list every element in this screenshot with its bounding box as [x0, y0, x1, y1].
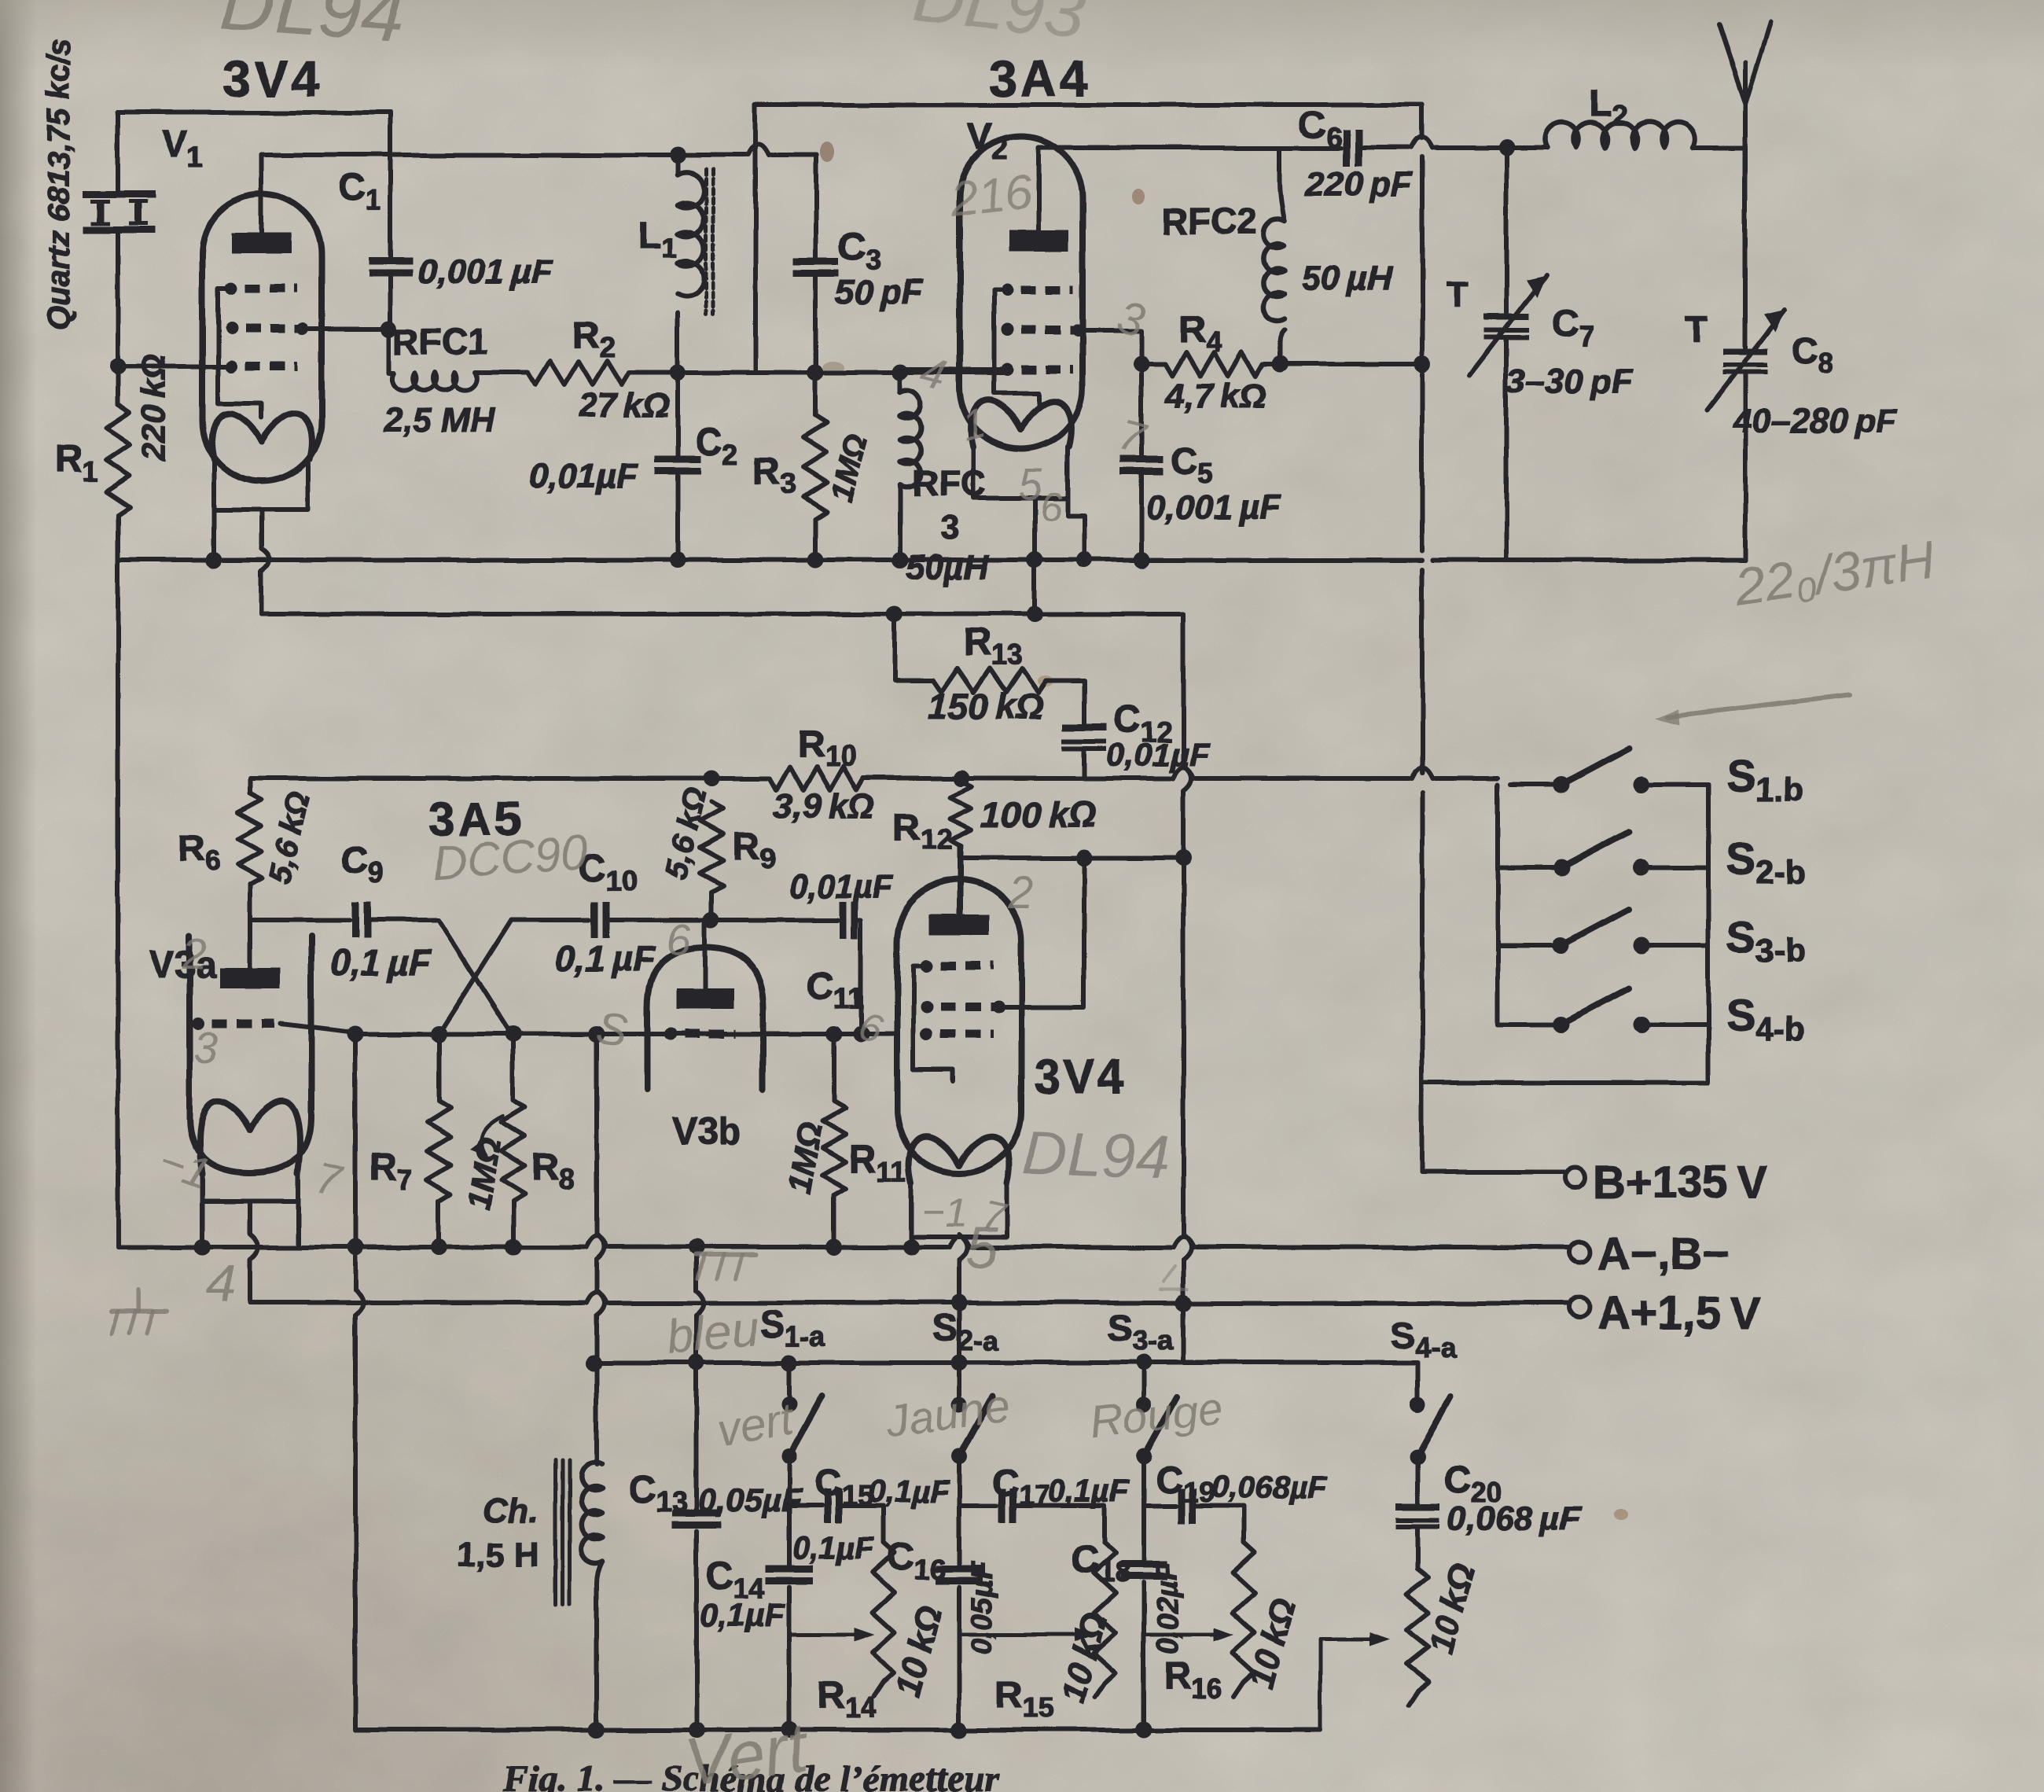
- filament of V2: [971, 401, 1072, 447]
- wire g2 to C1/RFC1 node: [300, 326, 389, 331]
- svg-text:V3b: V3b: [672, 1111, 741, 1153]
- trimmer capacitor C8 40-280 pF: [1743, 148, 1748, 348]
- inductor RFC3 50 uH: [898, 373, 903, 393]
- svg-text:0,01µF: 0,01µF: [1106, 736, 1211, 773]
- capacitor C6 220 pF (series): [1343, 129, 1350, 167]
- switch S2-a: [957, 1363, 961, 1404]
- wire to L2: [1506, 145, 1547, 150]
- stains: [820, 142, 1628, 1520]
- node V4 filament left on rail G: [903, 1239, 920, 1256]
- capacitor C10 0,1 uF: [591, 902, 598, 938]
- resistor R1 220 kOhm: [116, 366, 120, 405]
- wire S4 channel return to rail K (arrow): [1320, 1639, 1377, 1729]
- svg-text:3: 3: [193, 1023, 218, 1073]
- wire S3-a to C18/C19 node: [1141, 1456, 1146, 1506]
- svg-text:0,1µF: 0,1µF: [792, 1531, 875, 1566]
- grid g2 row of V4 (screen): [921, 1000, 933, 1013]
- wire V1 anode lead to plate rail: [259, 155, 264, 234]
- node R7 bottom on rail G: [431, 1239, 447, 1256]
- capacitor C18 0,02 uF: [1141, 1506, 1146, 1562]
- node g2/C5/R4: [1134, 356, 1150, 373]
- wire g3 internal strap to filament: [218, 288, 262, 418]
- svg-text:3–30 pF: 3–30 pF: [1506, 362, 1634, 401]
- capacitor C3 50 pF: [814, 155, 818, 259]
- grid g1 row of V1 (control): [225, 360, 237, 373]
- svg-text:0,1 µF: 0,1 µF: [330, 942, 432, 983]
- node R8/C9 on grid rail: [505, 1026, 522, 1043]
- node L1/C2 on node rail: [670, 365, 686, 381]
- wire S2-b feed: [1498, 865, 1561, 870]
- inductor L2: [1545, 123, 1695, 148]
- node R4 line on B+ vertical: [1414, 356, 1431, 373]
- svg-text:0,02µF: 0,02µF: [1151, 1560, 1184, 1655]
- node C13 on rail I: [689, 1355, 705, 1371]
- anode plate of V4: [929, 914, 989, 935]
- svg-text:40–280 pF: 40–280 pF: [1732, 402, 1899, 440]
- choke Ch 1,5 H: [594, 1363, 599, 1464]
- pencil tick (rail H): [1160, 1266, 1187, 1290]
- trimmer capacitor C7 3-30 pF: [1504, 148, 1509, 313]
- svg-text:Quartz 6813,75 kc/s: Quartz 6813,75 kc/s: [42, 39, 76, 330]
- wire rail D A-/B- distribution (y=712): [118, 557, 1422, 562]
- resistor R8 1 MOhm: [511, 1034, 516, 1101]
- resistor R12 100 kOhm: [950, 782, 972, 846]
- svg-text:220 kΩ: 220 kΩ: [135, 354, 172, 461]
- capacitor C15 0,1 uF (series): [789, 1503, 822, 1508]
- wire V2 g1 to node rail: [900, 367, 1001, 372]
- svg-text:3V4: 3V4: [1034, 1051, 1127, 1103]
- switch S1-b: [1553, 777, 1570, 793]
- resistor R16 10 kOhm: [1233, 1543, 1255, 1683]
- node keying drop on rail G: [347, 1239, 364, 1256]
- anode plate of V1: [232, 233, 292, 253]
- wire g1 to crystal node: [118, 364, 225, 369]
- iron core of L1 (dashed): [704, 169, 708, 315]
- wire V3a grid to flip-flop rail: [280, 1024, 381, 1034]
- node R7/C10 on grid rail: [431, 1026, 447, 1043]
- wire rail I keyed bus (y=1733): [594, 1360, 1417, 1365]
- node choke bottom on rail K: [589, 1722, 605, 1739]
- inductor RFC2 50 uH: [1280, 330, 1285, 364]
- resistor R11 1 MOhm: [826, 1026, 843, 1043]
- wire V1 plate rail (y=197) to L1/C3: [262, 153, 746, 157]
- wire S4-b feed: [1498, 1022, 1561, 1027]
- wire C14 tap to R14 (arrow): [789, 1633, 862, 1637]
- svg-text:216: 216: [947, 164, 1035, 227]
- inductor L1: [670, 147, 686, 164]
- filament of V1: [211, 414, 312, 459]
- switch S3-b: [1553, 938, 1570, 955]
- wire node rail R2 to V2 grid (y=474): [629, 370, 1007, 375]
- svg-text:150 kΩ: 150 kΩ: [928, 686, 1043, 727]
- tube V3b envelope (dome): [648, 948, 763, 1089]
- svg-text:0,001 µF: 0,001 µF: [1146, 488, 1281, 527]
- capacitor C2 0,01 uF: [675, 373, 680, 458]
- svg-text:4,7 kΩ: 4,7 kΩ: [1164, 377, 1266, 415]
- anode plate of V3b: [676, 988, 734, 1009]
- wire C10 to node M (R9/V3b anode): [606, 918, 711, 922]
- wire 3A4 plate rail corner down to node rail (x=961): [753, 105, 758, 373]
- node C7 top: [1498, 140, 1515, 156]
- svg-text:3A4: 3A4: [989, 50, 1090, 107]
- wire crystal to grid node: [116, 230, 120, 366]
- terminal A-,B-: [1569, 1242, 1590, 1262]
- iron core of choke (3 bars): [553, 1459, 557, 1604]
- wire 3A4 plate rail C (y=133): [755, 102, 1422, 107]
- wire C6 to L2 (hops B+ vertical): [1358, 145, 1410, 150]
- wire S2-a / V4 filament vertical rail H to rail I: [957, 1303, 961, 1363]
- node C18 bottom on rail K: [1136, 1721, 1153, 1738]
- wire C18 tap to R16 (arrow): [1144, 1633, 1222, 1637]
- svg-text:0,01µF: 0,01µF: [529, 457, 638, 495]
- filament of V4: [909, 1137, 1009, 1183]
- node R11 bottom on rail G: [826, 1239, 843, 1256]
- wire rail H A+1,5V (y=1657): [250, 1301, 343, 1305]
- node keyed line on rail I: [586, 1355, 602, 1371]
- wire V2 g2 to R4/C5 node: [1076, 330, 1141, 364]
- wire V2 g3 strap to filament: [994, 289, 1039, 405]
- wire C10 left: [511, 918, 589, 922]
- node R9 top on rail F: [704, 771, 720, 787]
- wire rail E corner down right vertical (x=1505): [1181, 614, 1186, 766]
- wire vertical 3A4 rail corner down to B+ (x=1809): [1420, 105, 1425, 138]
- svg-text:−1: −1: [921, 1190, 968, 1236]
- capacitor C16 0,05 uF: [957, 1506, 961, 1567]
- wire S3-b feed: [1498, 944, 1561, 948]
- capacitor C20 0,068 uF: [1415, 1456, 1420, 1503]
- wire V3a filament leads and tie bar: [202, 1175, 299, 1201]
- svg-text:bleu: bleu: [664, 1301, 761, 1365]
- wire V1 filament centre lead to A+ rail E (hops rail D): [259, 510, 264, 549]
- node C11 drop on grid rail: [853, 1026, 869, 1043]
- svg-text:0,1µF: 0,1µF: [1048, 1474, 1130, 1509]
- svg-text:1,5 H: 1,5 H: [456, 1536, 539, 1574]
- node S2-a on rail I: [951, 1355, 968, 1371]
- node S1-a on rail I: [781, 1355, 798, 1371]
- capacitor C14 0,1 uF: [787, 1506, 792, 1567]
- svg-text:6: 6: [1039, 484, 1062, 530]
- svg-text:B+135 V: B+135 V: [1593, 1157, 1768, 1208]
- tube V2 3A4 envelope: [960, 137, 1083, 449]
- svg-text:A+1,5 V: A+1,5 V: [1597, 1288, 1760, 1339]
- svg-text:5: 5: [965, 1215, 998, 1280]
- switch S4-b: [1553, 1017, 1570, 1033]
- resistor R10 3,9 kOhm (in rail F): [770, 767, 863, 790]
- wire coupling line V3a anode - C9 (y=1170): [250, 918, 350, 922]
- resistor R4 4,7 kOhm: [1166, 352, 1263, 376]
- svg-text:50 pF: 50 pF: [835, 273, 924, 311]
- wire tank bottom rail (y=712): [1433, 374, 1745, 560]
- svg-text:2,5 MH: 2,5 MH: [383, 401, 496, 440]
- grid g3 row of V4: [921, 959, 933, 972]
- wire R4 to RFC2 node and B+ vertical: [1263, 362, 1422, 366]
- svg-text:0,1µF: 0,1µF: [700, 1596, 786, 1633]
- node right vertical on A+ rail H: [1175, 1295, 1192, 1312]
- capacitor C11 0,01 uF: [840, 902, 847, 938]
- node RFC3 on rail D: [892, 552, 909, 569]
- node R12/V4 anode branch: [1076, 850, 1093, 867]
- capacitor C19 0,068 uF (series): [1144, 1503, 1176, 1508]
- svg-text:3,9 kΩ: 3,9 kΩ: [774, 787, 875, 826]
- wire rail F feed to switch bank (y=990..998): [1510, 782, 1561, 787]
- svg-text:0,1 µF: 0,1 µF: [555, 938, 657, 979]
- node keying drop on grid rail (x=449): [347, 1026, 364, 1043]
- wire RFC1 to R2: [475, 370, 528, 375]
- svg-text:220 pF: 220 pF: [1304, 165, 1413, 204]
- wire tank top line with C6 (y=188): [1274, 145, 1340, 150]
- wire right vertical rail H to rail I: [1181, 1303, 1186, 1363]
- capacitor C13 0,05 uF: [694, 1363, 699, 1511]
- svg-text:0,05µF: 0,05µF: [966, 1560, 999, 1655]
- wire V4 screen feed drop (x=1379): [996, 858, 1084, 1006]
- switch S3-a: [1141, 1363, 1146, 1404]
- node junction g2 / C1 / RFC1: [381, 321, 398, 337]
- wire V2 anode lead to tank (corner at y=188): [1039, 148, 1274, 231]
- svg-text:100 kΩ: 100 kΩ: [981, 794, 1097, 835]
- wire switch bank feeder vertical (x=1905): [1495, 785, 1500, 1025]
- wire V3a filament right lead: [296, 1201, 301, 1247]
- svg-text:4: 4: [206, 1254, 236, 1314]
- resistor R7 1 MOhm: [436, 1034, 441, 1101]
- wire V2 filament leads and tie bar: [973, 447, 1068, 498]
- switch S2-b: [1553, 859, 1570, 876]
- capacitor C12 0,01 uF: [1062, 724, 1106, 731]
- svg-text:DCC90: DCC90: [431, 826, 589, 889]
- capacitor C1 0,001 uF: [388, 112, 393, 259]
- svg-text:50 µH: 50 µH: [1302, 259, 1393, 298]
- pencil ground symbol (middle): [696, 1253, 756, 1257]
- grid g1 row of V4: [921, 1028, 933, 1040]
- node C14 bottom on rail K: [781, 1722, 798, 1739]
- svg-text:A−,B−: A−,B−: [1597, 1228, 1730, 1279]
- wire V1 filament leads and tie bar: [214, 459, 308, 510]
- svg-text:0,001 µF: 0,001 µF: [417, 253, 553, 292]
- tube V1 3V4 envelope: [202, 194, 322, 481]
- svg-text:RFC1: RFC1: [393, 321, 487, 362]
- capacitor C9 0,1 uF: [352, 902, 359, 938]
- svg-text:T: T: [1447, 274, 1469, 315]
- wire rail E filament A+ (y=781): [262, 612, 1183, 616]
- crossover wire C10 to V3a grid side: [439, 920, 511, 1034]
- resistor R3 1 MOhm: [813, 373, 818, 415]
- wire flip-flop grid rail (y=1330): [363, 1032, 897, 1036]
- svg-text:3V4: 3V4: [223, 50, 322, 107]
- grid g3 row of V2: [1001, 283, 1013, 296]
- wire V4 filament leads and tie bar: [911, 1183, 1007, 1237]
- wire S1-a to C14/C15 node: [787, 1456, 792, 1506]
- svg-text:T: T: [1686, 308, 1708, 349]
- svg-text:3: 3: [940, 509, 959, 547]
- switch S4-a: [1415, 1363, 1420, 1404]
- tube V4 3V4 envelope: [897, 880, 1021, 1173]
- wire rail K keying common (y=2200): [355, 1728, 1320, 1732]
- node on rail E (filament A+): [1027, 606, 1043, 623]
- resistor R13 150 kOhm: [933, 668, 1046, 692]
- wire top rail V1 plate-screen (y=143): [118, 110, 391, 115]
- resistor R-S4 10 kOhm: [1406, 1569, 1428, 1691]
- node R8 bottom on rail G: [505, 1239, 522, 1256]
- wire R13 to C12: [1046, 680, 1084, 725]
- node V1 filament left on A- rail: [206, 552, 222, 569]
- svg-text:RFC2: RFC2: [1162, 201, 1256, 241]
- svg-text:0,1µF: 0,1µF: [868, 1474, 950, 1509]
- anode plate of V2: [1009, 230, 1068, 251]
- wire V3a filament centre to rail H (hops rail G): [248, 1201, 252, 1235]
- wire C1 bottom to RFC1: [387, 329, 392, 373]
- node V2 filament leads on rail D: [1027, 552, 1043, 569]
- crystal XTAL Quartz 6813,75 kc/s: [83, 191, 156, 198]
- wire keying drop to rail G and bottom rail (x=452): [353, 1034, 358, 1247]
- wire rail G A-,B- (y=1586): [118, 1245, 584, 1249]
- wire R4 line (y=463): [1141, 362, 1166, 366]
- node RFC2 bottom / R4: [1272, 356, 1289, 373]
- terminal B+ 135 V: [1564, 1168, 1585, 1188]
- node C5 on rail D: [1134, 552, 1150, 569]
- resistor R14 10 kOhm: [873, 1543, 895, 1683]
- wire left vertical rail D to rail G (x=150): [116, 560, 120, 1247]
- filament of V3a: [200, 1101, 300, 1175]
- wire B+ feed corner: [1422, 1083, 1564, 1172]
- tube V3a envelope (half): [189, 936, 311, 1173]
- wire C16 tap to R15 (arrow): [959, 1633, 1083, 1637]
- inductor RFC1 2,5 MH: [389, 370, 394, 375]
- wire switch bank right vertical and bottom return: [1422, 785, 1708, 1083]
- pencil ground symbol (left): [137, 1290, 141, 1312]
- wire V2 filament lead to rail E: [1032, 560, 1037, 614]
- svg-text:6: 6: [667, 914, 692, 964]
- wire node M to C11: [711, 918, 837, 922]
- svg-text:Ch.: Ch.: [483, 1492, 539, 1530]
- grid g2 row of V1 (screen): [225, 322, 237, 335]
- svg-text:0,068 µF: 0,068 µF: [1447, 1499, 1582, 1538]
- node V3a filament left on rail G: [194, 1239, 211, 1256]
- node C2 on A-/B- rail D: [670, 552, 686, 569]
- wire keyed line drop x=759 (hops rails G,H): [594, 1034, 599, 1235]
- grid row of V3a (pin 3): [192, 1017, 204, 1030]
- resistor R6 5,6 kOhm: [248, 778, 252, 793]
- node RFC3 on node rail: [892, 365, 909, 381]
- node R13 drop on rail E: [887, 606, 903, 623]
- wire L2 to antenna corner: [1693, 145, 1745, 150]
- node S3-a on rail I: [1136, 1355, 1153, 1371]
- node C13 bottom on rail K: [689, 1722, 705, 1739]
- svg-text:2: 2: [1007, 867, 1033, 918]
- wire rail F keying bias rail (y=990): [250, 776, 770, 781]
- grid g1 row of V2: [1001, 363, 1013, 376]
- crossover wire C9 to V3b grid: [439, 920, 511, 1034]
- wire S2-a to C16/C17 node: [957, 1456, 961, 1506]
- wire R13 drop: [895, 614, 933, 680]
- svg-text:0,068µF: 0,068µF: [1211, 1470, 1328, 1504]
- node keyed-line drop on grid rail (x=759): [589, 1026, 605, 1043]
- terminal A+1,5V: [1569, 1297, 1590, 1317]
- wire C9 to crossover: [367, 918, 439, 922]
- node R12 top on rail F: [953, 771, 969, 787]
- resistor R9 5,6 kOhm: [700, 802, 723, 892]
- pencil arrow (top right): [1667, 695, 1849, 717]
- switch S1-a: [787, 1363, 792, 1404]
- wire C13 branch rail G to rail I (hops rail H): [689, 1239, 705, 1256]
- svg-text:50µH: 50µH: [906, 548, 990, 587]
- node C16 bottom on rail K: [951, 1722, 968, 1739]
- grid g2 row of V2 (screen): [1001, 324, 1013, 337]
- node R3 on rail D: [807, 552, 824, 569]
- wire C11 to V4 grid rail: [855, 920, 861, 1034]
- wire V4 filament centre lead to A+ rail H (hops rail G): [957, 1235, 961, 1237]
- node C3/R3 on node rail: [807, 365, 824, 381]
- grid row of V3b (pin 6): [664, 1028, 677, 1040]
- node V4 filament / S2-a drop on rail H: [951, 1295, 968, 1312]
- wire R12 bottom to V4 anode and to right vertical: [958, 846, 963, 914]
- svg-text:0,01µF: 0,01µF: [789, 868, 894, 905]
- antenna: [1743, 63, 1748, 148]
- node junction crystal / R1 / V1 grid g1: [110, 359, 127, 375]
- resistor R2 27 kOhm: [528, 361, 629, 385]
- svg-text:DL94: DL94: [1021, 1117, 1170, 1191]
- resistor R15 10 kOhm: [1094, 1543, 1116, 1683]
- grid g3 row of V1 (suppressor): [225, 281, 237, 294]
- svg-text:27 kΩ: 27 kΩ: [578, 386, 671, 425]
- wire left vertical from top rail to crystal: [116, 112, 120, 194]
- anode plate of V3a: [220, 968, 280, 988]
- capacitor C17 0,1 uF (series): [959, 1503, 996, 1508]
- wire V4 g3 strap to filament: [914, 966, 954, 1081]
- capacitor C5 0,001 uF: [1139, 364, 1144, 458]
- node M junction R9 / V3b anode / C11: [704, 912, 720, 929]
- svg-text:2: 2: [182, 929, 207, 978]
